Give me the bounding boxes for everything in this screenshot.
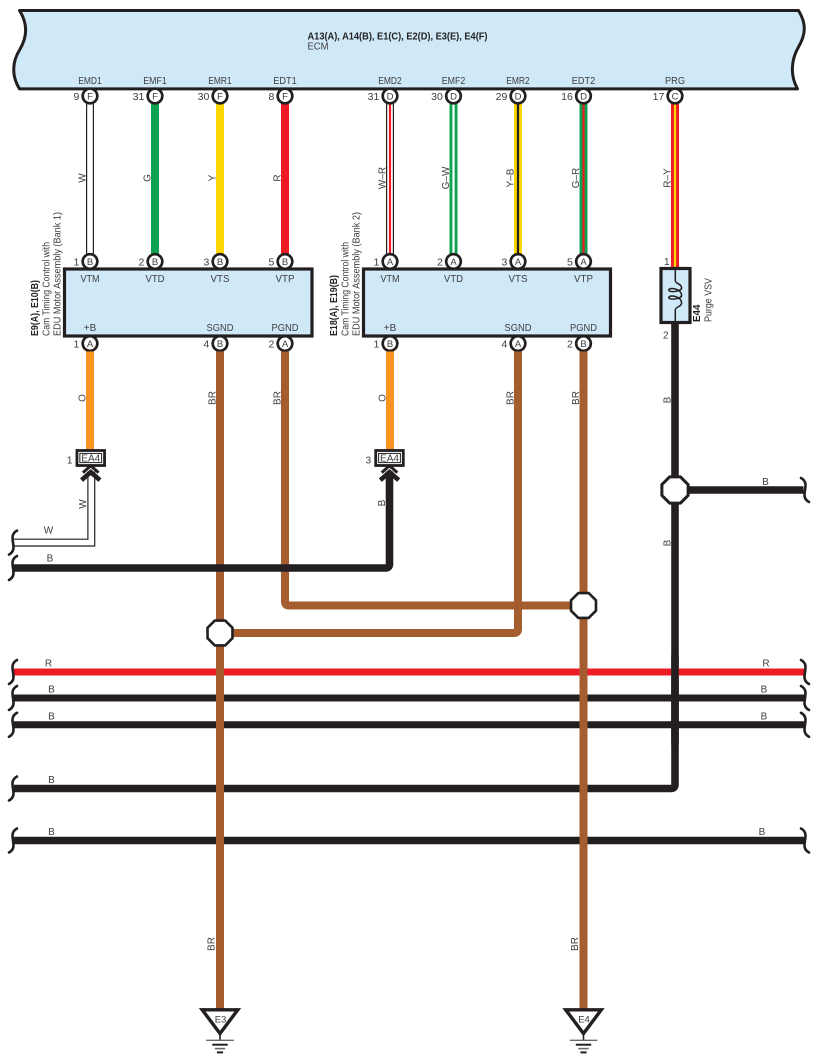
svg-text:3: 3 <box>501 256 507 268</box>
bus wire R <box>14 669 804 676</box>
svg-text:F: F <box>282 91 288 102</box>
svg-text:D: D <box>515 91 522 102</box>
svg-text:A: A <box>87 339 94 350</box>
Bank2 top pin 3(A) <box>511 254 526 269</box>
svg-text:F: F <box>87 91 93 102</box>
svg-text:A: A <box>515 257 522 268</box>
svg-text:2: 2 <box>437 256 443 268</box>
svg-text:2: 2 <box>138 256 144 268</box>
svg-text:BR: BR <box>570 937 581 951</box>
svg-text:R: R <box>762 659 769 670</box>
wire G-R from ECM to actuator <box>580 103 588 254</box>
wire BR from Bank1 PGND to junction <box>285 352 571 606</box>
svg-text:1: 1 <box>73 338 79 350</box>
svg-text:A: A <box>282 339 289 350</box>
svg-text:E18(A), E19(B): E18(A), E19(B) <box>329 275 340 336</box>
break symbol B wire <box>9 556 17 580</box>
svg-text:29: 29 <box>496 91 508 103</box>
break B3 right <box>801 713 809 737</box>
break R bus left <box>9 660 17 684</box>
junction node Bank2 PGND <box>571 593 596 618</box>
bus wire B5 <box>14 837 804 844</box>
ground E4 <box>566 1010 602 1034</box>
svg-text:5: 5 <box>567 256 573 268</box>
svg-text:B: B <box>761 685 768 696</box>
solenoid coil of E44 <box>669 270 682 321</box>
svg-text:VTS: VTS <box>211 274 230 285</box>
svg-text:EMD2: EMD2 <box>378 76 402 87</box>
svg-text:B: B <box>48 827 55 838</box>
svg-text:VTD: VTD <box>146 274 165 285</box>
svg-text:VTD: VTD <box>444 274 463 285</box>
svg-text:D: D <box>580 91 587 102</box>
connector EA4 pin1 <box>77 451 105 466</box>
ECM pin 17(C) <box>668 89 683 104</box>
svg-text:BR: BR <box>207 937 218 951</box>
Bank2 bottom pin 2(B) <box>576 336 591 351</box>
svg-text:R: R <box>273 174 284 181</box>
svg-text:EMF1: EMF1 <box>143 76 167 87</box>
svg-text:EA4: EA4 <box>81 454 100 465</box>
svg-text:BR: BR <box>506 391 517 405</box>
svg-text:Cam Timing Control with: Cam Timing Control with <box>42 242 53 336</box>
connector EA4 pin3 <box>376 451 404 466</box>
svg-text:A: A <box>515 339 522 350</box>
svg-text:EMR1: EMR1 <box>208 76 232 87</box>
svg-text:+B: +B <box>384 323 397 334</box>
svg-text:F: F <box>152 91 158 102</box>
svg-text:B: B <box>387 339 393 350</box>
svg-text:PGND: PGND <box>570 323 597 334</box>
svg-text:G–W: G–W <box>441 166 452 189</box>
svg-text:9: 9 <box>73 91 79 103</box>
svg-text:W: W <box>44 526 54 537</box>
wire R from ECM to actuator <box>281 103 289 254</box>
svg-text:D: D <box>450 91 457 102</box>
ground E3 <box>202 1010 238 1034</box>
wire B from junction to right break <box>688 486 804 494</box>
svg-text:BR: BR <box>273 391 284 405</box>
Bank2 top pin 5(A) <box>576 254 591 269</box>
svg-text:B: B <box>663 539 674 546</box>
svg-text:Y: Y <box>208 174 219 181</box>
wire Y from ECM to actuator <box>216 103 224 254</box>
svg-text:B: B <box>761 711 768 722</box>
svg-text:O: O <box>78 394 89 402</box>
svg-text:EDU Motor Assembly (Bank 2): EDU Motor Assembly (Bank 2) <box>352 212 363 336</box>
ECM pin 31(F) <box>148 89 163 104</box>
svg-text:B: B <box>663 396 674 403</box>
svg-text:Purge VSV: Purge VSV <box>704 278 715 322</box>
svg-text:B: B <box>152 257 158 268</box>
ECM pin 8(F) <box>278 89 293 104</box>
svg-text:30: 30 <box>431 91 443 103</box>
svg-text:SGND: SGND <box>207 323 234 334</box>
svg-text:A: A <box>580 257 587 268</box>
svg-text:E44: E44 <box>692 304 703 322</box>
svg-text:4: 4 <box>203 338 209 350</box>
ECM module block <box>14 11 805 89</box>
svg-text:B: B <box>47 554 54 565</box>
Bank2 bottom pin 1(B) <box>383 336 398 351</box>
svg-text:1: 1 <box>67 455 73 466</box>
svg-text:D: D <box>387 91 394 102</box>
break symbol right branch <box>801 478 809 502</box>
break B2 right <box>801 686 809 710</box>
svg-text:31: 31 <box>368 91 380 103</box>
wire W from EA4 to left break <box>14 472 92 543</box>
svg-text:+B: +B <box>84 323 97 334</box>
wire BR from Bank1 SGND down to ground E3 <box>216 352 224 1010</box>
bus wire B2 <box>14 695 804 702</box>
svg-text:B: B <box>377 499 388 506</box>
svg-text:VTP: VTP <box>574 274 593 285</box>
wire BR from Bank2 SGND to junction <box>233 352 518 634</box>
svg-text:A: A <box>450 257 457 268</box>
wire O from Bank2 +B to EA4 <box>386 352 394 451</box>
wire O from Bank1 +B to EA4 <box>86 352 94 451</box>
Bank1 top pin 2(B) <box>148 254 163 269</box>
svg-text:G–R: G–R <box>571 168 582 189</box>
svg-text:Cam Timing Control with: Cam Timing Control with <box>341 242 352 336</box>
svg-text:31: 31 <box>133 91 145 103</box>
wire BR from Bank2 PGND down to ground E4 <box>580 352 588 1010</box>
wire G-W from ECM to actuator <box>450 103 458 254</box>
svg-text:EA4: EA4 <box>380 454 399 465</box>
break R bus right <box>801 660 809 684</box>
svg-text:1: 1 <box>373 338 379 350</box>
break B3 left <box>9 713 17 737</box>
break symbol bus4 left <box>9 777 17 801</box>
Bank2 bottom pin 4(A) <box>511 336 526 351</box>
svg-text:C: C <box>672 91 679 102</box>
svg-text:5: 5 <box>268 256 274 268</box>
wire BR overpass E3 <box>216 660 224 1009</box>
svg-text:PGND: PGND <box>272 323 299 334</box>
svg-text:VTM: VTM <box>381 274 400 285</box>
svg-text:B: B <box>217 257 223 268</box>
svg-text:2: 2 <box>567 338 573 350</box>
svg-text:EDU Motor Assembly (Bank 1): EDU Motor Assembly (Bank 1) <box>53 212 64 336</box>
Bank1 top pin 5(B) <box>278 254 293 269</box>
wire W-R from ECM to actuator <box>386 103 394 254</box>
arrow to EA4 pin3 <box>382 466 398 473</box>
svg-text:8: 8 <box>268 91 274 103</box>
ECM pin 31(D) <box>383 89 398 104</box>
wire R-Y from ECM PRG to purge VSV <box>671 103 679 269</box>
svg-text:16: 16 <box>561 91 573 103</box>
svg-text:ECM: ECM <box>308 42 329 53</box>
svg-text:2: 2 <box>268 338 274 350</box>
svg-text:B: B <box>48 685 55 696</box>
svg-text:F: F <box>217 91 223 102</box>
svg-text:3: 3 <box>203 256 209 268</box>
svg-text:Y–B: Y–B <box>506 168 517 187</box>
ECM pin 30(F) <box>213 89 228 104</box>
svg-text:B: B <box>87 257 93 268</box>
svg-text:4: 4 <box>501 338 507 350</box>
svg-text:E3: E3 <box>215 1015 227 1026</box>
svg-text:VTP: VTP <box>276 274 295 285</box>
svg-text:A: A <box>387 257 394 268</box>
svg-text:SGND: SGND <box>505 323 532 334</box>
svg-text:EDT2: EDT2 <box>572 76 596 87</box>
wire B from purge VSV to EC bus <box>14 322 675 789</box>
svg-text:VTS: VTS <box>509 274 528 285</box>
wire Y-B from ECM to actuator <box>514 103 522 254</box>
svg-text:R–Y: R–Y <box>663 168 674 188</box>
svg-text:W–R: W–R <box>378 167 389 189</box>
purge VSV body E44 <box>661 269 690 323</box>
svg-text:1: 1 <box>373 256 379 268</box>
wire BR overpass E4 <box>580 660 588 1009</box>
bus wire B3 <box>14 721 804 728</box>
junction node B wire <box>662 477 688 503</box>
svg-text:BR: BR <box>208 391 219 405</box>
actuator block E18/E19 (Bank 2) <box>364 269 611 336</box>
svg-text:B: B <box>48 775 55 786</box>
break symbol W wire <box>9 531 17 555</box>
break B2 left <box>9 686 17 710</box>
svg-text:B: B <box>759 827 766 838</box>
svg-text:O: O <box>378 394 389 402</box>
svg-text:3: 3 <box>366 455 372 466</box>
Bank1 top pin 1(B) <box>83 254 98 269</box>
svg-text:30: 30 <box>198 91 210 103</box>
svg-text:VTM: VTM <box>81 274 100 285</box>
svg-text:1: 1 <box>664 257 670 268</box>
Bank2 top pin 2(A) <box>446 254 461 269</box>
svg-text:2: 2 <box>663 330 669 341</box>
svg-text:BR: BR <box>571 391 582 405</box>
svg-text:B: B <box>48 711 55 722</box>
svg-text:EMF2: EMF2 <box>442 76 466 87</box>
svg-text:17: 17 <box>653 91 665 103</box>
wire G from ECM to actuator <box>151 103 159 254</box>
Bank1 bottom pin 2(A) <box>278 336 293 351</box>
svg-text:W: W <box>78 173 89 183</box>
wire B from EA4 to left break <box>14 472 390 569</box>
svg-text:EMR2: EMR2 <box>506 76 530 87</box>
svg-text:R: R <box>45 659 52 670</box>
break B5 left <box>9 829 17 853</box>
svg-text:B: B <box>217 339 223 350</box>
wire W from ECM to actuator <box>86 103 94 254</box>
actuator block E9/E10 (Bank 1) <box>65 269 313 336</box>
svg-text:B: B <box>580 339 586 350</box>
svg-text:EDT1: EDT1 <box>273 76 297 87</box>
svg-text:PRG: PRG <box>665 76 685 87</box>
svg-text:W: W <box>78 499 89 509</box>
wire B overpass at red bus <box>671 655 679 745</box>
ECM pin 29(D) <box>511 89 526 104</box>
arrow to EA4 pin1 <box>83 466 99 473</box>
svg-text:1: 1 <box>73 256 79 268</box>
ECM pin 30(D) <box>446 89 461 104</box>
Bank1 top pin 3(B) <box>213 254 228 269</box>
svg-text:B: B <box>282 257 288 268</box>
svg-text:A13(A), A14(B), E1(C), E2(D),: A13(A), A14(B), E1(C), E2(D), E3(E), E4(… <box>308 32 488 43</box>
svg-text:G: G <box>143 174 154 182</box>
Bank1 bottom pin 4(B) <box>213 336 228 351</box>
ECM pin 9(F) <box>83 89 98 104</box>
Bank2 top pin 1(A) <box>383 254 398 269</box>
ECM pin 16(D) <box>576 89 591 104</box>
svg-text:EMD1: EMD1 <box>78 76 102 87</box>
junction node Bank1 SGND <box>208 621 233 646</box>
svg-text:B: B <box>762 477 769 488</box>
Bank1 bottom pin 1(A) <box>83 336 98 351</box>
svg-text:E4: E4 <box>578 1015 590 1026</box>
svg-text:E9(A), E10(B): E9(A), E10(B) <box>30 280 41 336</box>
break B5 right <box>801 829 809 853</box>
